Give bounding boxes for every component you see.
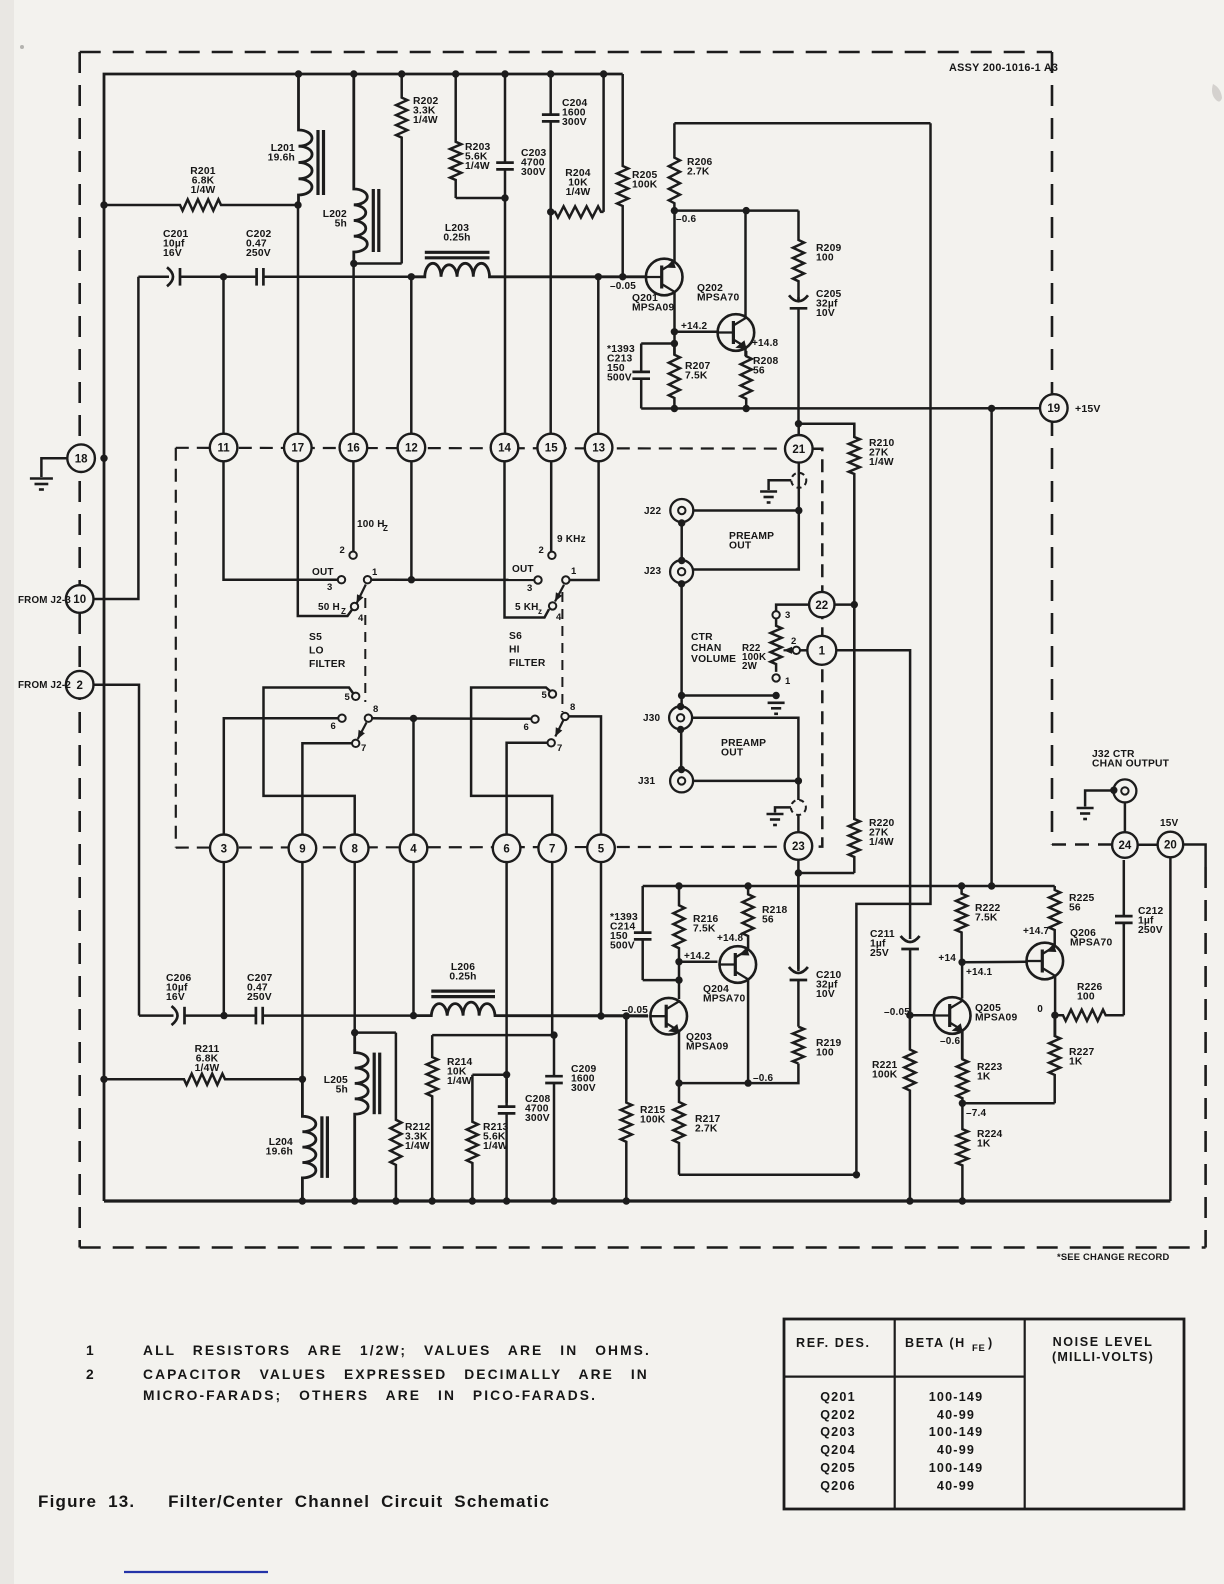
svg-text:18: 18 <box>75 453 88 465</box>
label Q203 <box>686 1032 728 1053</box>
wire node 13 riser <box>597 277 600 434</box>
junction <box>744 882 751 889</box>
switch S5 contact 6 <box>338 715 345 722</box>
svg-text:1/4W: 1/4W <box>447 1076 472 1087</box>
svg-text:1/4W: 1/4W <box>483 1141 508 1152</box>
wire Q202 emitter <box>744 347 747 356</box>
node 12 <box>398 434 426 462</box>
resistor R224 <box>957 1103 968 1201</box>
wire Q206 collector <box>1054 976 1057 1036</box>
wire +15 downfeed <box>990 408 993 886</box>
label C213 value <box>607 344 635 384</box>
svg-text:2: 2 <box>791 636 796 647</box>
wire C214 bottom link <box>643 979 679 982</box>
node 19 <box>1040 394 1068 422</box>
junction <box>675 958 682 965</box>
node 9 <box>289 835 317 863</box>
svg-text:–0.6: –0.6 <box>940 1036 961 1047</box>
wire contact 7 to node 6 <box>507 743 548 836</box>
label S5 contact 6 <box>331 721 336 732</box>
svg-text:100-149: 100-149 <box>929 1390 984 1404</box>
jack J32 <box>1113 779 1136 802</box>
svg-text:1/4W: 1/4W <box>413 115 438 126</box>
switch S5 wiper <box>357 585 366 604</box>
svg-text:100: 100 <box>816 253 834 264</box>
svg-text:100K: 100K <box>632 180 658 191</box>
wire top supply rail <box>104 74 623 1201</box>
resistor R219 <box>793 1027 804 1064</box>
svg-text:19: 19 <box>1047 403 1060 415</box>
switch S6 contact 4 <box>549 602 556 609</box>
capacitor C206 <box>139 1006 224 1025</box>
junction <box>623 1012 630 1019</box>
junction <box>410 1012 417 1019</box>
label C202 value <box>246 229 271 259</box>
resistor R225 <box>1049 886 1060 947</box>
wire node 15 to contact 2 S6 <box>550 461 553 552</box>
svg-text:Q202: Q202 <box>820 1408 856 1422</box>
wire R226 to C212 <box>1123 923 1126 1015</box>
junction <box>100 201 107 208</box>
label R22 terminal 1 <box>785 676 791 687</box>
label CTR CHAN VOLUME <box>691 632 736 665</box>
switch S5 contact 8 <box>365 715 372 722</box>
wire J30 to J31 <box>680 730 683 770</box>
svg-text:5h: 5h <box>335 219 347 230</box>
label L206 value <box>449 962 476 983</box>
svg-text:OUT: OUT <box>729 541 752 552</box>
wire -0.6 node <box>674 209 798 212</box>
capacitor C211 <box>901 936 920 1015</box>
svg-text:FROM J2-3: FROM J2-3 <box>18 595 71 606</box>
junction <box>398 70 405 77</box>
label R207 value <box>685 361 710 382</box>
transistor Q206 <box>1027 943 1064 980</box>
label C206 value <box>166 973 191 1003</box>
wire -0.6 bus <box>679 1064 798 1084</box>
svg-text:21: 21 <box>792 444 805 456</box>
junction <box>350 70 357 77</box>
jack J22 <box>670 499 693 522</box>
svg-text:J23: J23 <box>644 566 662 577</box>
label Q204 <box>703 984 745 1005</box>
label R212 value <box>405 1122 430 1152</box>
wire node 10 feed up <box>93 277 138 599</box>
svg-text:): ) <box>988 1336 992 1350</box>
junction <box>851 601 858 608</box>
junction <box>675 1079 682 1086</box>
label R224 value <box>977 1129 1002 1150</box>
junction <box>671 405 678 412</box>
svg-text:1/4W: 1/4W <box>191 185 216 196</box>
wire R206 top feed <box>674 122 930 125</box>
junction <box>853 1171 860 1178</box>
svg-text:1: 1 <box>86 1343 96 1358</box>
wire J22 lead <box>693 509 799 512</box>
svg-text:+14.2: +14.2 <box>681 321 708 332</box>
label J30 <box>643 713 661 724</box>
label R218 value <box>762 905 787 926</box>
junction <box>671 340 678 347</box>
svg-text:3: 3 <box>221 844 227 856</box>
junction <box>988 405 995 412</box>
wire Q203 emitter <box>678 1031 681 1083</box>
svg-text:2.7K: 2.7K <box>687 167 710 178</box>
filter block dashed border left <box>175 448 177 848</box>
wire L202 bottom to node 16 <box>352 264 355 435</box>
wire bottom ground rail <box>104 1199 1170 1202</box>
svg-text:MPSA70: MPSA70 <box>697 293 739 304</box>
node 18 <box>67 444 95 472</box>
junction <box>351 1197 358 1204</box>
wire node 6 down <box>505 862 508 1103</box>
svg-text:3: 3 <box>785 610 790 621</box>
wire Q205 emitter <box>961 1031 964 1059</box>
svg-text:MPSA09: MPSA09 <box>686 1042 728 1053</box>
node 5 <box>587 835 615 863</box>
svg-text:4: 4 <box>358 613 364 624</box>
junction <box>220 1012 227 1019</box>
label +14.7 Q206 <box>1023 926 1050 937</box>
wire -7.4 link <box>962 1102 1054 1105</box>
junction <box>678 692 685 699</box>
svg-text:3: 3 <box>327 582 332 593</box>
svg-text:250V: 250V <box>246 248 271 259</box>
svg-text:ALL RESISTORS ARE 1/2W; VA: ALL RESISTORS ARE 1/2W; VALUES ARE IN OH… <box>143 1343 651 1358</box>
label -0.05 Q205 <box>884 1007 910 1018</box>
svg-text:11: 11 <box>218 443 231 455</box>
assembly outline dashed border right lower <box>1204 867 1207 1248</box>
switch S5 contact 2 <box>349 552 356 559</box>
resistor R221 <box>904 1015 915 1201</box>
inductor L206 <box>414 991 649 1016</box>
resistor R202 <box>396 74 407 264</box>
junction <box>795 869 802 876</box>
wire S5 out bus <box>371 578 534 581</box>
shield ground at node 21 <box>760 473 806 503</box>
svg-text:J31: J31 <box>638 776 656 787</box>
label R209 value <box>816 243 841 264</box>
svg-text:3: 3 <box>527 583 532 594</box>
svg-text:6: 6 <box>503 844 509 856</box>
switch S6 wiper <box>555 585 564 602</box>
label -0.6 Q204 <box>753 1073 774 1084</box>
junction <box>743 207 750 214</box>
wire Q201 collector <box>673 211 676 263</box>
svg-text:MPSA09: MPSA09 <box>632 303 674 314</box>
svg-text:1: 1 <box>785 676 791 687</box>
label OUT S5 <box>312 567 334 578</box>
wire Q201 emitter to Q202 base <box>674 331 717 334</box>
junction <box>294 201 301 208</box>
wire feedback loop <box>856 123 930 1175</box>
switch S6 contact 1 <box>562 576 569 583</box>
svg-text:S5: S5 <box>309 632 322 643</box>
resistor R227 <box>1049 1015 1060 1103</box>
label S5 contact 8 <box>373 704 378 715</box>
junction <box>677 726 684 733</box>
wire node 4 down <box>412 862 415 1016</box>
junction <box>619 273 626 280</box>
switch S5 shaft <box>364 598 366 702</box>
svg-text:MICRO-FARADS; OTHERS ARE IN PI: MICRO-FARADS; OTHERS ARE IN PICO-FARADS. <box>143 1388 597 1403</box>
svg-text:300V: 300V <box>562 117 587 128</box>
svg-text:16V: 16V <box>166 992 185 1003</box>
svg-text:19.6h: 19.6h <box>268 153 295 164</box>
resistor R222 <box>956 886 967 962</box>
label S5 contact 5 <box>345 692 351 703</box>
svg-text:LO: LO <box>309 646 324 657</box>
svg-text:+14: +14 <box>938 953 956 964</box>
capacitor C201 <box>138 267 223 286</box>
junction <box>678 766 685 773</box>
label R223 value <box>977 1062 1002 1083</box>
svg-text:7: 7 <box>557 743 562 754</box>
label S5 <box>309 632 346 670</box>
assembly outline dashed link to node 24 <box>1052 843 1112 846</box>
junction <box>1051 1012 1058 1019</box>
label L204 value <box>266 1137 293 1158</box>
svg-text:2W: 2W <box>742 661 758 672</box>
node 22 <box>809 592 834 617</box>
svg-text:CHAN OUTPUT: CHAN OUTPUT <box>1092 759 1170 770</box>
svg-text:0.25h: 0.25h <box>449 972 476 983</box>
label S5 contact 1 <box>372 567 378 578</box>
wire R210 to R220 <box>853 605 856 819</box>
svg-text:100K: 100K <box>872 1070 898 1081</box>
wire contact 7 to node 9 <box>302 743 352 835</box>
wire node 20 to rail <box>1169 857 1172 1201</box>
label R202 value <box>413 96 438 126</box>
switch S6 contact 3 <box>534 576 541 583</box>
resistor R207 <box>669 344 680 409</box>
label S5 contact 4 <box>358 613 364 624</box>
jack J23 <box>670 560 693 583</box>
svg-text:MPSA70: MPSA70 <box>703 994 745 1005</box>
svg-text:Z: Z <box>341 607 346 616</box>
node 4 <box>400 835 428 863</box>
junction <box>678 580 685 587</box>
label Q202 <box>697 283 739 304</box>
wire node 21 top <box>797 424 800 436</box>
wire node 7 down <box>551 862 554 1036</box>
junction <box>220 273 227 280</box>
label R215 value <box>640 1105 666 1126</box>
node 23 <box>785 832 813 860</box>
junction <box>100 455 107 462</box>
svg-text:Q206: Q206 <box>820 1479 856 1493</box>
svg-text:CTR: CTR <box>691 632 713 643</box>
svg-text:Q201: Q201 <box>820 1390 856 1404</box>
svg-text:–7.4: –7.4 <box>966 1108 987 1119</box>
wire J32 to node 24 <box>1124 802 1127 832</box>
svg-text:Q203: Q203 <box>820 1425 856 1439</box>
resistor R218 <box>743 886 754 950</box>
wire volume low end <box>682 694 777 697</box>
svg-text:100-149: 100-149 <box>929 1425 984 1439</box>
node 1 <box>807 636 836 665</box>
resistor R212 <box>390 1033 401 1201</box>
wire node 13 to contact 1 S6 <box>570 461 599 581</box>
label R205 value <box>632 170 658 191</box>
svg-text:2: 2 <box>86 1367 96 1382</box>
wire contact 6 to node 3 <box>224 718 338 835</box>
label S5 contact 7 <box>361 743 366 754</box>
label S6 contact 1 <box>571 566 577 577</box>
svg-text:1/4W: 1/4W <box>869 457 894 468</box>
svg-text:1/4W: 1/4W <box>566 187 591 198</box>
svg-text:17: 17 <box>291 443 304 455</box>
label S6 <box>509 631 546 669</box>
label S5 contact 3 <box>327 582 332 593</box>
resistor R206 <box>669 123 680 210</box>
wire Q205 base <box>910 1014 933 1017</box>
svg-text:2: 2 <box>539 545 544 556</box>
svg-text:–0.6: –0.6 <box>676 214 697 225</box>
resistor R216 <box>673 886 684 962</box>
wire contact 8 to node 5 <box>569 716 601 835</box>
label R204 value <box>565 168 590 198</box>
svg-text:Z: Z <box>383 524 388 533</box>
junction <box>299 1076 306 1083</box>
junction <box>547 70 554 77</box>
label R216 value <box>693 914 718 935</box>
junction <box>600 70 607 77</box>
transistor Q205 <box>934 997 971 1034</box>
wire R204 right lead to rail <box>602 74 605 212</box>
wire R202 bottom to L202 <box>354 262 402 265</box>
svg-text:15V: 15V <box>1160 818 1179 829</box>
svg-text:2: 2 <box>340 545 345 556</box>
wire Q203 base to Q204 <box>679 960 718 963</box>
svg-text:5 KH: 5 KH <box>515 602 539 613</box>
junction <box>429 1197 436 1204</box>
label R211 value <box>195 1044 220 1074</box>
junction <box>623 1197 630 1204</box>
wire Q202 collector <box>744 211 747 318</box>
junction <box>677 703 684 710</box>
svg-text:5: 5 <box>542 690 548 701</box>
svg-text:ASSY 200-1016-1 A3: ASSY 200-1016-1 A3 <box>949 62 1058 74</box>
wire node 12 to out bus <box>410 461 413 580</box>
junction <box>351 1029 358 1036</box>
label C210 value <box>816 970 841 1000</box>
switch S6 contact 2 <box>548 552 555 559</box>
junction <box>958 882 965 889</box>
label S6 contact 4 <box>556 612 562 623</box>
label C203 value <box>521 148 546 178</box>
jack J30 <box>669 706 692 729</box>
junction <box>675 976 682 983</box>
node 14 <box>491 434 519 462</box>
capacitor C210 <box>789 873 808 1027</box>
wire R22 terminal 3 to node 22 <box>776 605 809 612</box>
svg-text:20: 20 <box>1164 840 1177 852</box>
assembly outline dashed border top <box>80 51 1052 54</box>
svg-text:56: 56 <box>762 915 774 926</box>
svg-text:FILTER: FILTER <box>309 659 346 670</box>
label 5 KHz <box>515 602 539 613</box>
svg-text:23: 23 <box>792 841 805 853</box>
svg-text:1/4W: 1/4W <box>869 837 894 848</box>
wire wiper to node 1 <box>800 649 808 652</box>
label OUT S6 <box>512 564 534 575</box>
label R208 value <box>753 356 778 377</box>
junction <box>595 273 602 280</box>
label Q206 <box>1070 928 1112 949</box>
resistor R226 <box>1055 1010 1124 1021</box>
svg-text:CAPACITOR VALUES EXPRESSED: CAPACITOR VALUES EXPRESSED DECIMALLY ARE… <box>143 1367 649 1382</box>
junction <box>795 507 802 514</box>
svg-text:1/4W: 1/4W <box>195 1063 220 1074</box>
svg-text:1K: 1K <box>977 1072 991 1083</box>
svg-text:1K: 1K <box>1069 1057 1083 1068</box>
junction <box>350 260 357 267</box>
ground at J32 <box>1077 791 1114 820</box>
wire C204 to node 15 <box>549 212 552 434</box>
blue underline mark <box>124 1571 268 1573</box>
svg-text:56: 56 <box>753 366 765 377</box>
svg-text:15: 15 <box>545 443 558 455</box>
label S6 contact 2 <box>539 545 544 556</box>
svg-text:+14.8: +14.8 <box>752 338 779 349</box>
resistor R208 <box>741 351 752 409</box>
svg-text:100: 100 <box>816 1048 834 1059</box>
label S6 contact 6 <box>524 722 529 733</box>
junction <box>772 692 779 699</box>
capacitor C213 <box>632 344 650 409</box>
wire Q204 collector <box>747 980 750 1084</box>
wire J23 to J30 <box>680 583 683 706</box>
capacitor C205 <box>789 295 808 423</box>
junction <box>1110 787 1117 794</box>
wire node 23 bottom <box>797 859 800 873</box>
label C214 value <box>610 912 638 952</box>
resistor R201 <box>104 199 298 210</box>
label J31 <box>638 776 656 787</box>
label R222 value <box>975 903 1000 924</box>
label J32 CTR CHAN OUTPUT <box>1092 749 1170 770</box>
svg-text:MPSA70: MPSA70 <box>1070 938 1112 949</box>
node 6 <box>493 835 521 863</box>
label 0 Q206 <box>1037 1004 1043 1015</box>
junction <box>906 1012 913 1019</box>
junction <box>597 1012 604 1019</box>
svg-text:9 KHz: 9 KHz <box>557 534 586 545</box>
potentiometer R22 wiper <box>784 647 801 654</box>
switch S5 lower wiper <box>358 723 367 740</box>
label 15V <box>1160 818 1179 829</box>
label R225 value <box>1069 893 1094 914</box>
shield ground at node 23 <box>767 781 806 833</box>
label S6 contact 8 <box>570 702 575 713</box>
svg-text:300V: 300V <box>521 167 546 178</box>
wire node 8 down <box>353 862 356 1033</box>
svg-text:6: 6 <box>331 721 336 732</box>
svg-text:J22: J22 <box>644 506 662 517</box>
svg-text:10: 10 <box>73 594 86 606</box>
svg-text:VOLUME: VOLUME <box>691 654 736 665</box>
label C207 value <box>247 973 272 1003</box>
junction <box>550 1031 557 1038</box>
junction <box>392 1197 399 1204</box>
switch S6 contact 6 <box>531 716 538 723</box>
table REF DES / BETA / NOISE LEVEL <box>784 1319 1184 1509</box>
node 7 <box>538 835 566 863</box>
capacitor C208 <box>498 1075 516 1201</box>
svg-text:4: 4 <box>410 844 417 856</box>
label FROM J2-2 <box>18 680 71 691</box>
